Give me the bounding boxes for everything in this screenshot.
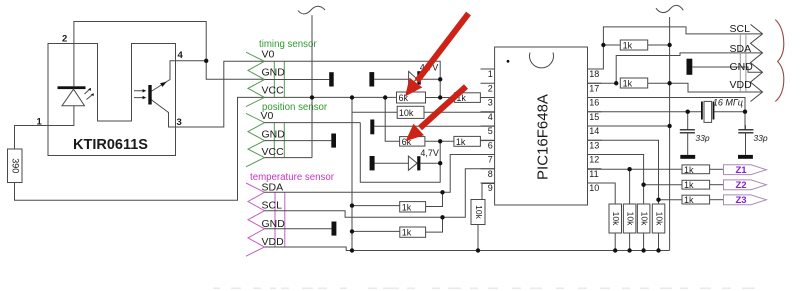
svg-text:V0: V0 <box>261 110 274 122</box>
svg-text:15: 15 <box>589 112 599 122</box>
svg-text:VCC: VCC <box>262 85 285 97</box>
svg-text:Z2: Z2 <box>735 180 746 191</box>
svg-text:7: 7 <box>488 155 493 165</box>
svg-text:GND: GND <box>730 61 754 73</box>
svg-text:33p: 33p <box>753 133 767 143</box>
svg-text:Z3: Z3 <box>735 195 746 206</box>
svg-text:GND: GND <box>262 218 286 230</box>
svg-text:10k: 10k <box>625 212 635 226</box>
svg-text:10k: 10k <box>639 212 649 226</box>
svg-text:10k: 10k <box>611 212 621 226</box>
svg-text:1k: 1k <box>456 137 466 147</box>
svg-text:1: 1 <box>488 69 493 79</box>
svg-text:13: 13 <box>589 141 599 151</box>
svg-text:10k: 10k <box>654 212 664 226</box>
svg-text:3: 3 <box>488 98 493 108</box>
svg-text:1k: 1k <box>623 41 633 51</box>
svg-text:1k: 1k <box>684 195 694 205</box>
svg-text:11: 11 <box>589 169 598 179</box>
svg-text:SDA: SDA <box>262 181 284 193</box>
svg-text:1k: 1k <box>402 202 412 212</box>
svg-text:GND: GND <box>262 67 286 79</box>
svg-text:18: 18 <box>589 69 599 79</box>
svg-text:17: 17 <box>589 84 599 94</box>
svg-text:4: 4 <box>488 112 493 122</box>
svg-text:9: 9 <box>488 183 493 193</box>
svg-text:4,7V: 4,7V <box>420 148 439 158</box>
svg-text:390: 390 <box>10 158 20 173</box>
svg-text:12: 12 <box>589 155 599 165</box>
svg-text:1k: 1k <box>684 180 694 190</box>
svg-text:KTIR0611S: KTIR0611S <box>73 137 148 153</box>
svg-text:5: 5 <box>488 126 493 136</box>
svg-text:SCL: SCL <box>730 23 751 35</box>
svg-text:2: 2 <box>488 84 493 94</box>
svg-text:14: 14 <box>589 126 599 136</box>
svg-text:8: 8 <box>488 169 493 179</box>
svg-text:16: 16 <box>589 98 599 108</box>
svg-text:VCC: VCC <box>262 146 285 158</box>
svg-text:2: 2 <box>62 34 67 45</box>
svg-text:1k: 1k <box>684 165 694 175</box>
svg-text:GND: GND <box>262 128 286 140</box>
svg-text:1k: 1k <box>402 228 412 238</box>
svg-text:3: 3 <box>177 117 182 128</box>
svg-text:16 МГц: 16 МГц <box>713 98 743 108</box>
svg-text:VDD: VDD <box>262 236 285 248</box>
svg-text:4: 4 <box>178 50 184 61</box>
svg-text:Z1: Z1 <box>735 165 747 176</box>
svg-text:10k: 10k <box>474 205 484 219</box>
svg-text:6: 6 <box>488 141 493 151</box>
svg-text:VDD: VDD <box>730 79 753 91</box>
svg-text:SDA: SDA <box>730 43 752 55</box>
svg-text:1: 1 <box>37 117 43 128</box>
svg-text:SCL: SCL <box>262 200 283 212</box>
svg-text:1k: 1k <box>623 79 633 89</box>
svg-text:10k: 10k <box>399 108 414 118</box>
svg-text:10: 10 <box>589 183 599 193</box>
svg-text:PIC16F648A: PIC16F648A <box>534 94 551 180</box>
svg-text:33p: 33p <box>695 133 709 143</box>
svg-text:V0: V0 <box>262 48 275 60</box>
